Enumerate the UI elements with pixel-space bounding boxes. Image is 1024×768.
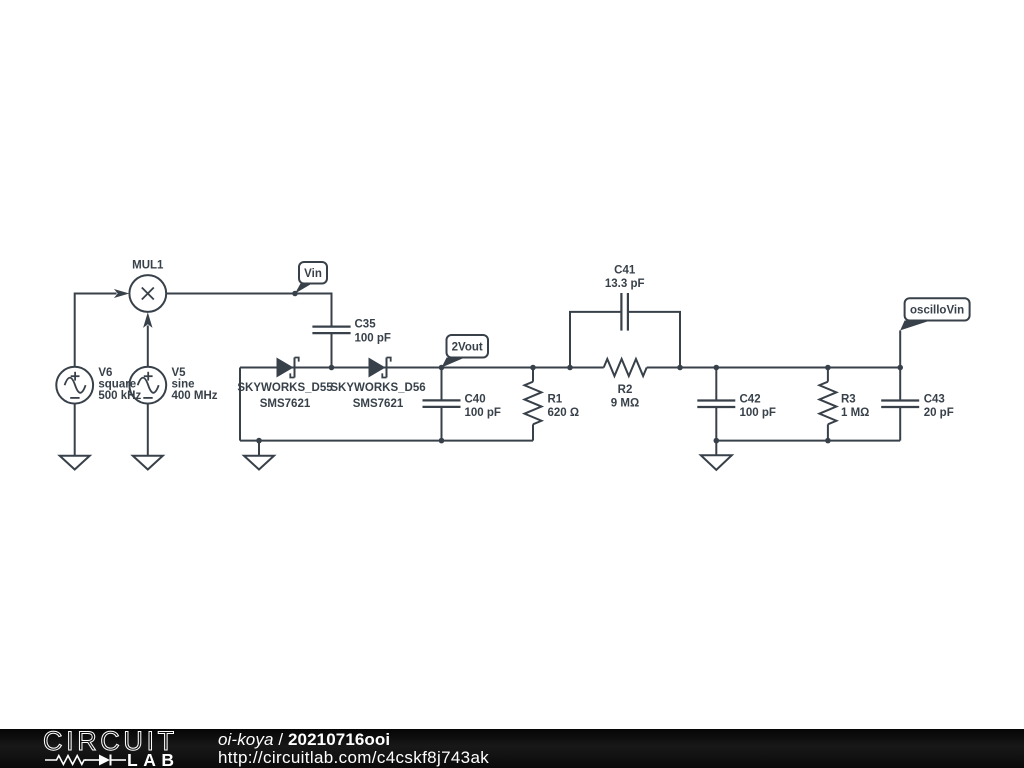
svg-text:R2: R2 xyxy=(618,384,633,396)
wire C40 bottom branch xyxy=(441,407,443,441)
svg-text:R3: R3 xyxy=(841,393,856,405)
resistor R1 xyxy=(525,382,580,425)
capacitor C41 xyxy=(605,264,645,330)
svg-text:1 MΩ: 1 MΩ xyxy=(841,407,869,419)
resistor R3 xyxy=(819,382,869,425)
node dot R1 top xyxy=(530,365,536,371)
node dot R3 top xyxy=(825,365,831,371)
node dot C40 bottom xyxy=(439,438,445,444)
wire main horizontal line right of R2 xyxy=(647,367,901,369)
node dot C35 bottom xyxy=(329,365,335,371)
ground under V5 xyxy=(133,456,163,470)
wire oscilloVin branch xyxy=(899,330,901,367)
schottky diode SKYWORKS_D56 xyxy=(330,358,425,411)
wire C40 top branch xyxy=(441,368,443,401)
wire C41 right branch xyxy=(628,312,680,368)
wire R3 top stub xyxy=(827,368,829,382)
svg-text:V6: V6 xyxy=(98,367,112,379)
credits text xyxy=(218,731,489,766)
node dot C42 bottom xyxy=(714,438,720,444)
svg-text:C35: C35 xyxy=(355,319,377,331)
svg-text:C42: C42 xyxy=(740,393,761,405)
wire ground stub right xyxy=(715,441,717,456)
CircuitLab logo xyxy=(0,729,200,768)
capacitor C43 xyxy=(881,393,954,419)
svg-text:100 pF: 100 pF xyxy=(465,407,501,419)
schottky diode SKYWORKS_D55 xyxy=(237,358,333,411)
wire R1 bottom stub xyxy=(532,424,534,440)
wire C42 top branch xyxy=(715,368,717,401)
wire left rail down xyxy=(239,368,241,441)
svg-text:sine: sine xyxy=(172,379,195,391)
wire C35 bottom to main line xyxy=(331,333,333,367)
node dot C42 top xyxy=(714,365,720,371)
wire bottom rail right xyxy=(716,440,900,442)
ground under C42 xyxy=(701,455,732,470)
svg-text:C43: C43 xyxy=(924,393,945,405)
svg-text:MUL1: MUL1 xyxy=(132,260,164,272)
capacitor C40 xyxy=(423,393,501,419)
logo resistor xyxy=(45,756,86,765)
ground under diode rail xyxy=(244,456,274,470)
wire V5 to MUL1 bottom xyxy=(147,326,149,367)
voltage source V5 xyxy=(129,367,217,470)
svg-text:R1: R1 xyxy=(548,393,563,405)
svg-text:SKYWORKS_D56: SKYWORKS_D56 xyxy=(330,382,425,394)
wire ground stub left xyxy=(258,441,260,456)
svg-text:9 MΩ: 9 MΩ xyxy=(611,398,639,410)
svg-text:100 pF: 100 pF xyxy=(355,332,391,344)
node dot R3 bottom xyxy=(825,438,831,444)
capacitor C42 xyxy=(697,393,776,419)
svg-text:500 kHz: 500 kHz xyxy=(98,390,141,402)
wire V5 to ground xyxy=(147,404,149,456)
resistor R2 xyxy=(604,359,647,410)
node dot C41 left xyxy=(567,365,573,371)
wire V6 to ground xyxy=(74,404,76,456)
wire C43 bottom branch xyxy=(899,407,901,441)
svg-text:C40: C40 xyxy=(465,393,486,405)
ground under V6 xyxy=(60,456,90,470)
node dot diode rail ground xyxy=(256,438,262,444)
svg-text:100 pF: 100 pF xyxy=(740,407,776,419)
wire V6 to MUL1 input xyxy=(75,294,117,367)
svg-text:400 MHz: 400 MHz xyxy=(172,390,218,402)
capacitor C35 xyxy=(312,319,391,345)
svg-text:LAB: LAB xyxy=(127,750,179,768)
svg-text:C41: C41 xyxy=(614,264,636,276)
svg-text:SMS7621: SMS7621 xyxy=(353,398,404,410)
svg-text:20 pF: 20 pF xyxy=(924,407,954,419)
svg-text:620 Ω: 620 Ω xyxy=(548,407,580,419)
multiplier MUL1 xyxy=(114,260,166,328)
svg-text:SMS7621: SMS7621 xyxy=(260,398,311,410)
wire R3 bottom stub xyxy=(827,424,829,440)
wire bottom rail left xyxy=(240,440,533,442)
svg-text:13.3 pF: 13.3 pF xyxy=(605,278,645,290)
wire MUL1 output to C35 top xyxy=(166,294,331,327)
voltage source V6 xyxy=(56,367,141,470)
net flag oscilloVin xyxy=(900,298,969,330)
wire main horizontal line left of R2 xyxy=(240,367,604,369)
svg-text:oscilloVin: oscilloVin xyxy=(910,305,964,317)
node dot 2Vout xyxy=(439,365,445,371)
node dot C43 top xyxy=(897,365,903,371)
wire C41 left branch xyxy=(570,312,621,368)
svg-text:V5: V5 xyxy=(172,367,187,379)
wire C43 top branch xyxy=(899,368,901,401)
node dot C41 right xyxy=(677,365,683,371)
net flag 2Vout xyxy=(442,335,489,368)
wire C42 bottom branch xyxy=(715,407,717,441)
svg-text:Vin: Vin xyxy=(304,268,322,280)
wire R1 top stub xyxy=(532,368,534,382)
node dot Vin xyxy=(292,291,298,297)
net flag Vin xyxy=(295,262,327,294)
svg-text:SKYWORKS_D55: SKYWORKS_D55 xyxy=(237,382,333,394)
logo diode xyxy=(99,755,110,766)
svg-text:2Vout: 2Vout xyxy=(452,342,483,354)
